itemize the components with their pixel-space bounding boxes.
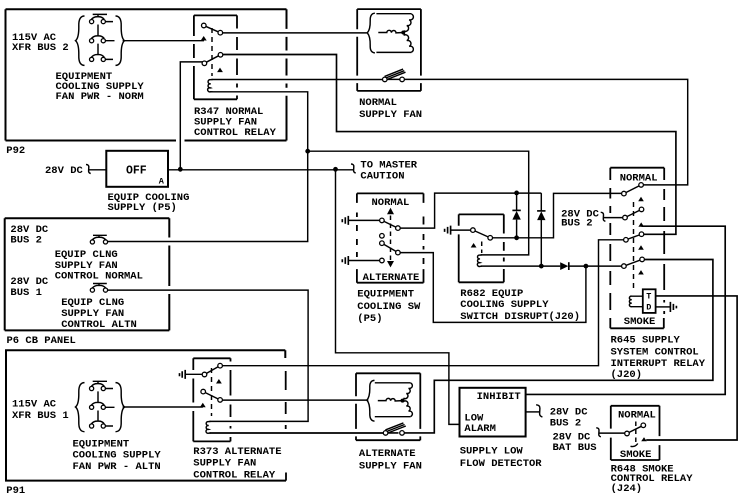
svg-text:SUPPLY FAN: SUPPLY FAN <box>193 458 256 470</box>
svg-text:ALTERNATE: ALTERNATE <box>363 272 420 284</box>
svg-text:115V AC: 115V AC <box>12 399 57 411</box>
mechanical link R645 (dashed) <box>633 202 635 289</box>
svg-text:ALARM: ALARM <box>464 423 496 435</box>
wire R682 ground to pivot <box>451 229 471 231</box>
svg-text:SUPPLY FAN: SUPPLY FAN <box>359 109 422 121</box>
wire R347 coil bottom down to junction and left to control-normal breaker <box>106 92 308 242</box>
svg-text:SUPPLY FAN: SUPPLY FAN <box>359 461 422 473</box>
relay R645 contact 2 <box>623 207 644 220</box>
brace left of breaker group <box>76 16 85 65</box>
hook TO MASTER CAUTION (mirrored) <box>351 164 356 173</box>
junction dot R347 coil bottom branch <box>305 149 310 154</box>
detector box SUPPLY LOW FLOW DETECTOR <box>460 388 526 437</box>
svg-text:NORMAL: NORMAL <box>372 197 410 209</box>
wire 115V AC bus 1 to R373 arrow <box>123 406 203 408</box>
svg-text:SMOKE: SMOKE <box>624 316 656 328</box>
svg-text:BAT BUS: BAT BUS <box>553 442 597 454</box>
switch box EQUIPMENT COOLING SW (P5) <box>357 193 424 282</box>
arrow energized position R645 contact 1 <box>638 197 644 201</box>
relay R645 contact 3 <box>624 232 644 242</box>
mechanical link cooling sw (dashed) <box>390 216 392 261</box>
arrow energized position R373 contact 1 <box>216 379 222 384</box>
junction dot R645 sw4 pivot branch <box>584 264 589 269</box>
arrow energized position R648 <box>641 437 647 441</box>
brace right of breaker group <box>116 16 125 65</box>
wire cooling sw normal ground to pivot <box>349 219 380 221</box>
arrow energized position R347 contact 2 <box>217 68 223 73</box>
panel box P6 CB PANEL <box>5 218 170 330</box>
svg-text:CONTROL ALTN: CONTROL ALTN <box>61 319 137 331</box>
hook 28V DC feed at OFF switch <box>86 165 91 174</box>
svg-text:R682 EQUIP: R682 EQUIP <box>460 288 523 300</box>
svg-text:EQUIPMENT: EQUIPMENT <box>357 288 414 300</box>
arrow energized position R373 contact 2 <box>200 403 206 408</box>
svg-text:D: D <box>646 303 651 313</box>
svg-text:INTERRUPT RELAY: INTERRUPT RELAY <box>611 358 706 370</box>
switch box OFF equip cooling supply <box>106 151 168 187</box>
svg-text:CONTROL RELAY: CONTROL RELAY <box>194 127 277 139</box>
svg-text:BUS 2: BUS 2 <box>561 217 593 229</box>
arrow energized position R645 contact 3 <box>638 245 644 249</box>
wire T/D top output to R648 energized contact (via x737.1) <box>646 296 737 440</box>
svg-text:(J20): (J20) <box>611 369 643 381</box>
svg-text:FLOW DETECTOR: FLOW DETECTOR <box>460 458 543 470</box>
relay R682 contact <box>471 228 493 240</box>
arrow energized position R645 contact 2 <box>638 222 644 226</box>
svg-text:OFF: OFF <box>126 164 147 177</box>
switch EQUIPMENT COOLING SW pole 1 (normal) <box>380 218 401 230</box>
mechanical link R347 (dashed) <box>211 28 213 76</box>
circuit breaker 3-phase 115V AC XFR BUS 1 <box>76 381 125 431</box>
svg-text:CONTROL RELAY: CONTROL RELAY <box>193 469 276 481</box>
svg-text:FAN PWR - NORM: FAN PWR - NORM <box>56 91 144 103</box>
svg-text:SUPPLY (P5): SUPPLY (P5) <box>108 202 177 214</box>
svg-text:NORMAL: NORMAL <box>620 172 658 184</box>
relay box R347 (dashed) <box>194 15 237 99</box>
junction dot diode D1 bottom <box>514 235 519 240</box>
junction dot diode D1 top <box>514 191 519 196</box>
ground cooling sw alternate feed <box>342 256 348 265</box>
svg-text:T: T <box>646 292 651 302</box>
wire R347 sw2 pivot to OFF output (down at x180.3) <box>180 62 204 169</box>
switch box P5 dashed side edges <box>357 213 424 265</box>
fan box NORMAL SUPPLY FAN <box>357 9 421 91</box>
hook 28V DC BUS 2 at R645 <box>601 212 606 221</box>
wire cooling sw alternate ground to pivot <box>349 260 380 262</box>
relay R648 contact <box>625 423 646 436</box>
ground cooling sw normal feed <box>342 216 348 225</box>
svg-text:CONTROL NORMAL: CONTROL NORMAL <box>55 271 143 283</box>
junction dot diode D2 bottom <box>539 264 544 269</box>
svg-text:28V DC: 28V DC <box>45 165 84 177</box>
svg-text:R373 ALTERNATE: R373 ALTERNATE <box>193 446 281 458</box>
wire T/D bottom output to connector <box>656 306 670 308</box>
wire R347 sw1 throw to normal fan brace <box>220 32 368 34</box>
wire R347 sw2 throw to R645 sw3 throw (via x336.5, y131.6, x675.9) <box>221 55 676 235</box>
wire R373 sw1 pivot to ground <box>186 373 205 375</box>
junction dot master caution branch <box>333 167 338 172</box>
arrow energized position R682 <box>471 243 477 248</box>
wire cooling sw normal throw to diode D2 (via x434.6, y193.1) <box>400 193 541 266</box>
svg-text:EQUIPMENT: EQUIPMENT <box>73 439 130 451</box>
svg-text:R645 SUPPLY: R645 SUPPLY <box>611 334 681 346</box>
svg-text:INHIBIT: INHIBIT <box>477 391 521 403</box>
wire low alarm inhibit output to R645 sw2 energized contact <box>526 226 726 394</box>
relay R645 contact 1 <box>622 183 644 196</box>
svg-text:SMOKE: SMOKE <box>620 449 652 461</box>
relay box R682 <box>459 214 504 282</box>
svg-text:CAUTION: CAUTION <box>360 171 404 183</box>
wire R347 coil top through normal fan thermal switch to R645 sw1 throw <box>212 79 688 184</box>
circuit breaker EQUIP CLNG SUPPLY FAN CONTROL ALTN <box>90 284 107 293</box>
svg-text:BUS 2: BUS 2 <box>550 418 582 430</box>
relay R373 contact 2 <box>201 389 223 402</box>
svg-text:COOLING SW: COOLING SW <box>357 301 421 313</box>
thermal switch alternate fan <box>383 423 405 435</box>
svg-text:(J24): (J24) <box>611 483 643 495</box>
SECTION-WIRES <box>89 33 737 440</box>
svg-text:BUS 1: BUS 1 <box>10 287 42 299</box>
coil R682 <box>477 255 481 267</box>
relay R347 contact 2 <box>202 53 223 66</box>
svg-text:XFR BUS 1: XFR BUS 1 <box>12 410 69 422</box>
svg-text:SYSTEM CONTROL: SYSTEM CONTROL <box>611 347 699 359</box>
svg-text:NORMAL: NORMAL <box>359 97 397 109</box>
hook 28V DC BUS 2 at inhibit output (mirrored) <box>536 405 542 417</box>
thermal switch normal fan <box>383 69 406 82</box>
svg-text:XFR BUS 2: XFR BUS 2 <box>12 42 69 54</box>
mechanical link R682 (dashed) <box>481 242 483 254</box>
relay R645 contact 4 <box>622 257 645 268</box>
svg-text:FAN PWR - ALTN: FAN PWR - ALTN <box>73 461 161 473</box>
motor alternate supply fan <box>375 383 413 417</box>
wire diode D1 branch vertical <box>516 193 518 238</box>
coil R373 <box>206 421 211 433</box>
relay box R645 (dashed) <box>610 168 664 329</box>
relay R347 contact 1 <box>202 23 223 35</box>
wire R682 throw to R645 sw1 pivot (via x553.5, y193.4) <box>492 193 622 237</box>
brace alternate fan input <box>367 380 375 421</box>
wire junction branch to R682 coil top (via y151.2, x528.7) <box>308 151 529 255</box>
fan box ALTERNATE SUPPLY FAN <box>356 373 420 440</box>
relay R373 contact 1 <box>202 363 222 376</box>
panel box P91 <box>6 350 286 480</box>
svg-text:SWITCH DISRUPT(J20): SWITCH DISRUPT(J20) <box>460 311 580 323</box>
relay box R373 (dashed) <box>193 358 230 441</box>
svg-text:P91: P91 <box>6 485 25 497</box>
relay box R648 <box>611 406 660 460</box>
arrow normal position (up) <box>387 208 394 214</box>
svg-text:ALTERNATE: ALTERNATE <box>359 448 416 460</box>
wire 28V DC BAT BUS hook to R648 pivot <box>599 432 625 434</box>
wire R373 sw2 throw to alternate fan brace <box>220 399 368 401</box>
mechanical link R648 (dashed) <box>635 422 637 444</box>
diode D2 <box>537 211 545 220</box>
wire R373 coil bottom through alt fan thermal switch up to R645 sw4 throw <box>210 260 713 434</box>
coil R645 time delay <box>629 296 642 307</box>
coil R347 <box>208 80 213 92</box>
wire 28V DC BUS 2 hook to R645 sw2 pivot <box>604 217 623 219</box>
wire 28V DC hook to OFF box <box>89 169 106 171</box>
svg-text:NORMAL: NORMAL <box>618 410 656 422</box>
svg-text:SUPPLY LOW: SUPPLY LOW <box>460 445 524 457</box>
wire R373 sw1 throw to R645 sw3 pivot (via x598.5) <box>220 240 624 366</box>
mechanical link R373 (dashed) <box>211 368 213 416</box>
junction dot OFF output at R347 branch <box>178 167 183 172</box>
arrow energized position R645 contact 4 <box>638 270 644 274</box>
switch EQUIPMENT COOLING SW pole 2 (alternate) <box>380 241 401 255</box>
wire OFF box to TO MASTER CAUTION hook <box>168 169 353 171</box>
wire cooling sw alternate throw to sw4 pivot junction (via x433.3, y322.4, x585.9) <box>400 253 586 323</box>
panel box P91 dashed right edge <box>285 371 287 481</box>
diode D1 <box>512 210 520 219</box>
motor normal supply fan <box>376 14 413 53</box>
diode D3 <box>560 262 569 270</box>
svg-text:COOLING SUPPLY: COOLING SUPPLY <box>460 299 549 311</box>
hook 28V DC BAT BUS at R648 <box>596 428 601 437</box>
svg-text:A: A <box>159 176 165 186</box>
wire control-altn breaker to R373 coil top (via x308.1) <box>106 290 309 421</box>
panel box P92 <box>6 9 287 140</box>
switch EQUIPMENT COOLING SW spare contacts <box>380 234 385 239</box>
smoke position arc R648 <box>631 444 638 447</box>
circuit breaker 3-phase 115V AC XFR BUS 2 <box>76 14 125 65</box>
svg-text:P92: P92 <box>6 145 25 157</box>
wire master caution branch down to LOW ALARM input <box>336 169 460 424</box>
svg-text:SUPPLY FAN: SUPPLY FAN <box>61 308 124 320</box>
svg-text:(P5): (P5) <box>357 313 382 325</box>
brace normal fan input <box>367 13 375 53</box>
ground T/D output (mirrored) <box>670 302 676 312</box>
wire 115V AC bus 2 to R347 arrow <box>123 40 204 42</box>
wire inhibit output 2 to 28V DC BUS 2 hook <box>526 411 540 413</box>
svg-text:28V DC: 28V DC <box>550 406 589 418</box>
timer box T/D in R645 <box>643 289 656 313</box>
svg-text:P6 CB PANEL: P6 CB PANEL <box>7 335 76 347</box>
wire R682 coil bottom to R645 sw4 pivot through diode D3 <box>481 265 622 267</box>
arrow alternate position (down) <box>387 261 394 267</box>
ground at R373 contact 1 pivot <box>180 370 186 379</box>
arrow energized position R347 contact 1 <box>201 36 207 41</box>
svg-text:COOLING SUPPLY: COOLING SUPPLY <box>73 450 162 462</box>
relay box R645 dashed side edges <box>610 188 664 314</box>
SECTION-COMPONENTS <box>76 13 677 446</box>
circuit breaker EQUIP CLNG SUPPLY FAN CONTROL NORMAL <box>90 235 107 244</box>
svg-text:BUS 2: BUS 2 <box>10 235 42 247</box>
ground R682 feed <box>445 226 451 235</box>
